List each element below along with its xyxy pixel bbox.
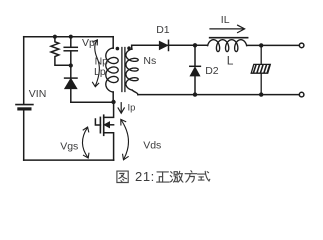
- junction dot top rail C: [69, 35, 73, 39]
- wire top rail: [24, 36, 114, 38]
- transformer T1 secondary winding Ns: [126, 49, 138, 90]
- wire drain node horizontal: [71, 101, 114, 103]
- load resistor (hatched box): [251, 45, 270, 94]
- junction dot load bottom: [259, 92, 263, 96]
- junction dot top rail R: [53, 35, 57, 39]
- svg-text:L: L: [227, 54, 234, 68]
- transformer T1 primary winding Np: [106, 48, 118, 92]
- diode snubber clamp: [65, 66, 77, 103]
- transformer T1 primary bottom lead: [112, 92, 114, 102]
- svg-text:D2: D2: [205, 65, 219, 77]
- transformer T1 secondary winding Ns lead: [131, 45, 133, 49]
- Ip arrow: [118, 103, 124, 114]
- MOSFET Q1 body lead: [109, 124, 114, 126]
- wire secondary bottom rail: [138, 94, 299, 96]
- caption char zheng: [157, 172, 169, 182]
- caption: [117, 169, 210, 184]
- junction dot RC-diode: [69, 63, 73, 67]
- svg-text:Ns: Ns: [143, 55, 156, 67]
- svg-text:Lp: Lp: [94, 66, 106, 78]
- transformer T1 primary winding Np lead: [112, 37, 114, 49]
- caption char fang: [185, 171, 197, 183]
- polarity dot secondary: [127, 46, 131, 50]
- battery VIN: [16, 105, 33, 161]
- polarity dot primary: [116, 47, 120, 51]
- resistor R snubber: [51, 37, 71, 65]
- Vp curved arrow: [93, 40, 100, 87]
- diode D1: [159, 40, 207, 50]
- transformer core: [122, 48, 125, 92]
- IL arrow: [210, 25, 245, 32]
- svg-text:Vgs: Vgs: [60, 140, 78, 152]
- MOSFET Q1 source lead: [104, 133, 114, 160]
- caption char shi: [198, 171, 210, 181]
- caption char tu: [117, 171, 128, 182]
- Vds curved arrow: [121, 119, 129, 159]
- junction dot D2 top: [193, 43, 197, 47]
- junction dot drain node: [111, 100, 115, 104]
- output terminal bottom: [299, 92, 304, 97]
- junction dot load top: [259, 43, 263, 47]
- inductor L winding: [208, 40, 247, 52]
- MOSFET Q1 drain lead: [104, 102, 114, 117]
- svg-text:21:: 21:: [135, 169, 155, 184]
- MOSFET Q1 gate stub: [95, 119, 100, 125]
- transformer T1 secondary bottom corner: [132, 90, 138, 95]
- wire secondary top rail: [132, 44, 160, 46]
- inductor L right lead: [247, 44, 300, 46]
- inductor L core bar: [210, 37, 248, 39]
- svg-text:Ip: Ip: [128, 103, 136, 114]
- svg-text:Vp: Vp: [82, 37, 95, 49]
- svg-text:Vds: Vds: [143, 139, 161, 151]
- junction dot D2 bottom: [193, 92, 197, 96]
- MOSFET Q1 body arrow: [104, 122, 109, 128]
- diode D2: [190, 45, 201, 94]
- wire bottom rail: [24, 159, 114, 161]
- output terminal top: [299, 43, 304, 48]
- svg-text:D1: D1: [156, 24, 170, 36]
- caption char ji: [170, 171, 183, 182]
- MOSFET Q1 gate bar: [99, 117, 101, 132]
- MOSFET Q1 channel bar: [103, 115, 105, 135]
- Vgs curved arrow: [82, 127, 88, 158]
- wire left vertical: [23, 37, 25, 104]
- svg-text:VIN: VIN: [29, 88, 47, 100]
- capacitor C snubber: [64, 37, 77, 66]
- svg-text:IL: IL: [221, 14, 230, 26]
